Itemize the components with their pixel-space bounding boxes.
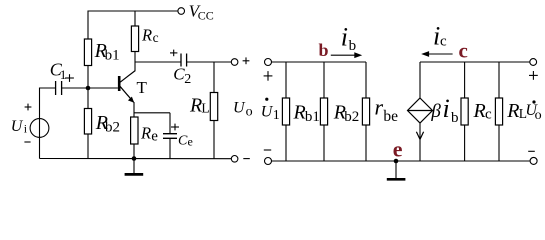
plus sign U1 source: [25, 106, 32, 108]
plus sign output right circuit: [529, 74, 538, 76]
wire rbe lower lead: [365, 125, 367, 161]
svg-text:U: U: [11, 118, 24, 135]
plus sign C1: [65, 77, 74, 79]
capacitor Ce plates: [163, 133, 177, 135]
wire controlled source upper lead: [419, 62, 421, 99]
svg-text:L: L: [201, 100, 209, 115]
controlled source diamond: [408, 98, 433, 123]
source U1 circle: [30, 119, 49, 138]
svg-text:C: C: [178, 134, 188, 149]
svg-text:o: o: [246, 105, 253, 120]
terminal output bottom right circuit: [530, 157, 537, 164]
wire Rb1 to base: [87, 66, 89, 109]
wire top rail right circuit left group: [272, 61, 367, 63]
wire Rb1 right upper lead: [285, 62, 287, 98]
svg-text:c: c: [485, 106, 492, 122]
terminal input bottom right circuit: [265, 158, 272, 165]
wire RL lower lead: [213, 121, 215, 159]
svg-text:R: R: [473, 100, 486, 122]
resistor Rc right: [461, 98, 468, 125]
wire Rb1 right lower lead: [285, 125, 287, 161]
wire Rb2 right lower lead: [323, 125, 325, 161]
resistor Re: [131, 117, 138, 144]
svg-text:r: r: [375, 95, 384, 120]
svg-text:b: b: [349, 38, 357, 54]
wire input to C1: [40, 87, 56, 89]
ground symbol right: [395, 161, 397, 178]
node base junction dot: [86, 86, 91, 91]
svg-text:b2: b2: [105, 120, 120, 136]
wire Ce lower lead: [169, 138, 171, 158]
wire C2 to output terminal: [187, 61, 232, 63]
wire Rb2 right upper lead: [323, 62, 325, 98]
resistor RL right: [495, 98, 502, 125]
svg-text:c: c: [440, 34, 447, 50]
svg-text:i: i: [443, 94, 450, 123]
svg-text:e: e: [151, 128, 158, 144]
svg-text:o: o: [535, 108, 542, 123]
node emitter ground junction dot: [132, 156, 137, 161]
terminal VCC: [178, 8, 185, 15]
wire Ce upper lead: [169, 113, 171, 134]
wire emitter vertical: [133, 102, 135, 117]
capacitor C1: [55, 81, 57, 95]
arrow current direction down: [416, 132, 423, 140]
minus sign U1 source: [24, 141, 30, 143]
wire rbe upper lead: [365, 62, 367, 98]
node e ground junction dot: [394, 159, 399, 164]
resistor Rb2: [84, 109, 91, 135]
resistor Rc: [131, 26, 138, 52]
svg-text:b: b: [451, 110, 459, 126]
transistor T collector lead: [120, 71, 135, 83]
svg-text:c: c: [153, 30, 159, 45]
plus sign output left circuit: [243, 60, 250, 62]
plus sign input right circuit: [264, 75, 273, 77]
svg-text:U: U: [233, 99, 246, 116]
transistor T emitter lead: [120, 86, 134, 102]
terminal output top left circuit: [231, 59, 238, 66]
wire bottom rail right circuit: [272, 160, 531, 162]
wire controlled source lower lead: [419, 123, 421, 162]
minus sign output left circuit: [243, 158, 250, 160]
svg-text:i: i: [24, 121, 28, 135]
svg-text:R: R: [140, 123, 151, 142]
resistor Rb1 right: [282, 98, 289, 125]
svg-text:e: e: [393, 136, 403, 161]
ground symbol left: [133, 159, 135, 174]
svg-text:b1: b1: [105, 48, 120, 64]
svg-text:R: R: [506, 100, 519, 122]
svg-text:b: b: [319, 40, 329, 60]
svg-text:R: R: [293, 102, 306, 124]
svg-text:c: c: [459, 38, 468, 62]
arrow ib: [331, 54, 356, 56]
wire emitter node to Ce: [134, 112, 170, 114]
wire Re to ground rail: [133, 144, 135, 159]
capacitor C2: [180, 54, 182, 67]
wire Rc upper lead: [134, 11, 136, 26]
resistor Rb2 right: [320, 98, 327, 125]
svg-text:be: be: [383, 108, 398, 125]
svg-text:2: 2: [184, 72, 191, 87]
terminal output bottom left circuit: [231, 156, 238, 163]
svg-text:R: R: [141, 26, 152, 45]
wire top rail left circuit: [88, 10, 178, 12]
svg-text:i: i: [341, 23, 348, 52]
wire Rb1 upper lead: [87, 11, 89, 40]
svg-text:e: e: [188, 135, 193, 149]
plus sign C2: [170, 52, 177, 54]
plus sign Ce: [171, 126, 179, 128]
transistor T base bar: [118, 76, 121, 91]
svg-text:R: R: [189, 95, 202, 117]
svg-text:1: 1: [273, 108, 280, 123]
svg-text:b1: b1: [305, 109, 320, 125]
wire RL upper lead: [213, 62, 215, 93]
svg-text:1: 1: [60, 67, 67, 82]
resistor Rb1: [84, 39, 91, 66]
terminal output top right circuit: [530, 59, 537, 66]
wire RL right upper lead: [498, 62, 500, 98]
wire Rc to collector node: [134, 52, 136, 72]
svg-text:β: β: [430, 101, 441, 122]
wire top rail right circuit right group: [420, 61, 530, 63]
svg-text:T: T: [137, 78, 148, 97]
wire Rc right lower lead: [464, 125, 466, 161]
resistor RL left circuit: [210, 93, 217, 121]
wire collector node to C2: [135, 61, 181, 63]
wire RL right lower lead: [498, 125, 500, 161]
wire base: [62, 87, 118, 89]
wire Rb2 to ground rail: [87, 134, 89, 159]
arrow ic: [428, 53, 453, 55]
wire bottom rail left circuit: [40, 158, 232, 160]
svg-text:CC: CC: [198, 8, 214, 22]
wire input left branch: [39, 88, 41, 159]
minus sign input right circuit: [264, 149, 271, 151]
terminal input top right circuit: [265, 59, 272, 66]
wire Rc right upper lead: [464, 62, 466, 98]
svg-text:b2: b2: [344, 109, 359, 125]
resistor rbe: [362, 98, 369, 125]
transistor T emitter arrowhead: [128, 97, 134, 103]
minus sign output right circuit: [528, 150, 535, 152]
